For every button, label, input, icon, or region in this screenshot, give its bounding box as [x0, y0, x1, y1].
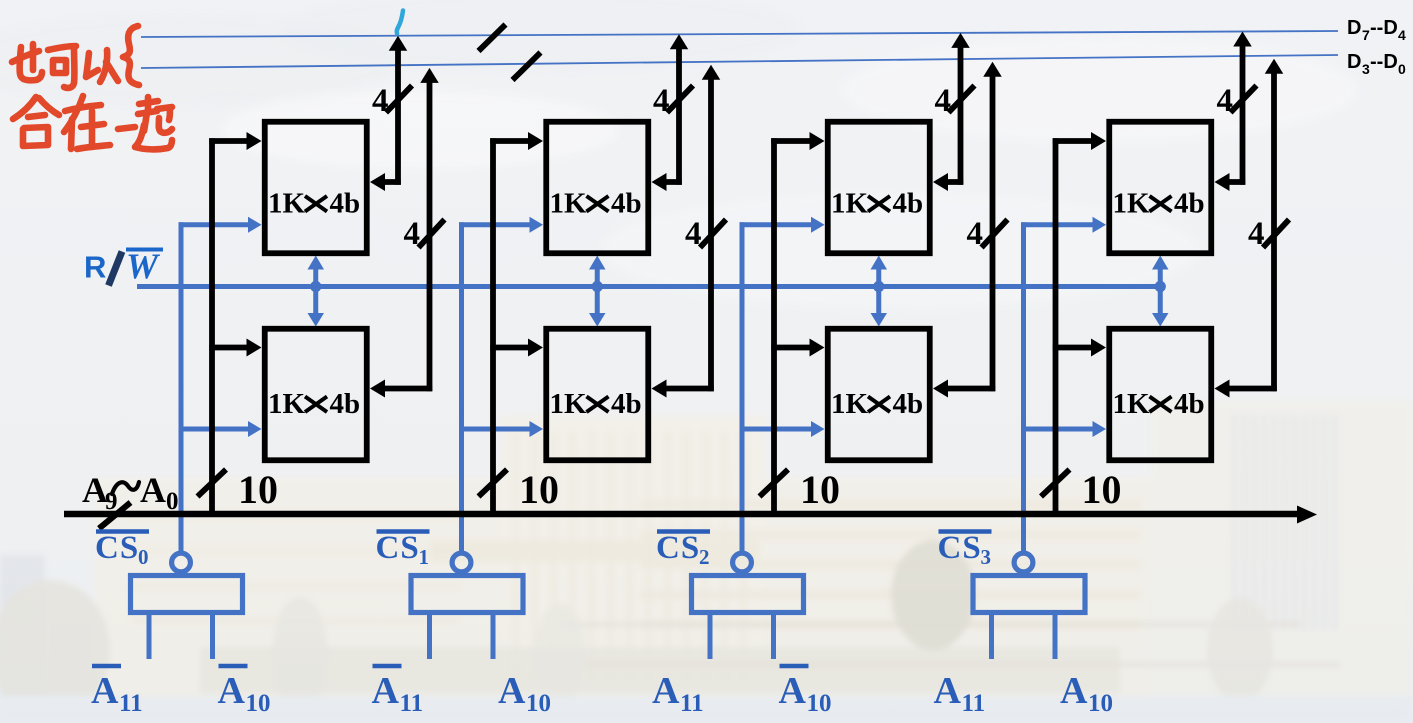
wire: decoder input A11 leg column 2: [427, 611, 432, 659]
wire: data bus connection lower chip to D3--D0, column 4: [1227, 386, 1277, 392]
RAM chip U3 1K x 4b (upper, column 2): [546, 122, 648, 254]
svg-text:10: 10: [1082, 467, 1122, 512]
svg-text:A: A: [218, 670, 246, 712]
wire: CS3 branch into lower chip: [1021, 427, 1095, 432]
decoder gate (AND) for CS2: [692, 576, 804, 613]
svg-text:A: A: [372, 670, 400, 712]
RAM chip U1 1K x 4b (upper, column 1): [265, 122, 367, 254]
svg-text:11: 11: [119, 690, 143, 717]
svg-text:10: 10: [519, 467, 559, 512]
svg-text:1K: 1K: [268, 388, 306, 420]
inverter bubble on decoder output 1: [452, 553, 471, 572]
RAM chip U5 1K x 4b (upper, column 3): [828, 122, 930, 254]
wire: address branch into upper chip column 4: [1053, 138, 1094, 144]
svg-text:4: 4: [653, 83, 670, 119]
svg-text:4b: 4b: [330, 388, 361, 420]
wire: address feed vertical column 4: [1053, 138, 1059, 514]
svg-text:4: 4: [1398, 27, 1406, 43]
wire: address branch into upper chip column 2: [490, 138, 530, 144]
svg-text:4b: 4b: [611, 188, 642, 220]
wire: R/W control line: [137, 284, 1160, 289]
inverter bubble on decoder output 2: [733, 553, 752, 572]
svg-text:10: 10: [807, 690, 832, 717]
svg-text:10: 10: [1088, 690, 1113, 717]
svg-text:D: D: [1347, 51, 1361, 73]
bus-width slash on D3--D0 line: [513, 53, 541, 81]
RAM chip U8 1K x 4b (lower, column 4): [1109, 329, 1211, 461]
RAM chip U4 1K x 4b (lower, column 2): [546, 329, 648, 461]
svg-text:4: 4: [372, 83, 389, 119]
handwritten annotation: - (dash): [118, 127, 135, 129]
wire: data bus connection upper chip to D7--D4, column 3: [946, 179, 964, 185]
svg-text:CS: CS: [938, 530, 982, 566]
svg-text:A: A: [1060, 670, 1088, 712]
svg-text:4b: 4b: [893, 188, 924, 220]
svg-text:3: 3: [981, 545, 992, 569]
svg-text:CS: CS: [656, 530, 700, 566]
svg-text:4b: 4b: [1174, 188, 1205, 220]
svg-text:4: 4: [935, 83, 952, 119]
wire: address branch into lower chip column 4: [1053, 345, 1094, 351]
handwritten annotation: 在: [65, 105, 101, 111]
inverter bubble on decoder output 3: [1014, 553, 1033, 572]
wire: data bus connection upper chip to D7--D4, column 1: [383, 179, 401, 185]
svg-text:4: 4: [685, 216, 702, 252]
svg-text:1K: 1K: [831, 188, 869, 220]
svg-text:A: A: [652, 670, 680, 712]
wire: R/W double-headed arrow column 3: [876, 268, 881, 315]
bus-width slash (10) on address feed, column 2: [479, 470, 508, 497]
bus-width slash on D7--D4 line: [479, 25, 506, 52]
wire: data bus connection upper chip to D7--D4, column 2: [664, 179, 682, 185]
bus-width slash (10) on address feed, column 4: [1041, 470, 1070, 497]
wire: data bus connection upper chip to D7--D4, column 4: [1227, 179, 1245, 185]
bus-width slash (4) upper, column 1: [386, 86, 412, 113]
wire: chip-select net CS3 vertical from decoder: [1021, 222, 1026, 551]
svg-text:3: 3: [1362, 61, 1370, 77]
bus-width slash (10) on address feed, column 3: [760, 470, 789, 497]
wire: decoder input A10 leg column 3: [771, 611, 776, 659]
junction dot on R/W line column 4: [1155, 281, 1166, 292]
junction dot on R/W line column 2: [592, 281, 603, 292]
wire: address feed vertical column 1: [209, 138, 215, 514]
bus-width slash (4) upper, column 2: [667, 86, 693, 113]
RAM chip U7 1K x 4b (upper, column 4): [1109, 122, 1211, 254]
svg-text:10: 10: [526, 690, 551, 717]
svg-text:1K: 1K: [831, 388, 869, 420]
wire: chip-select net CS1 vertical from decoder: [459, 222, 464, 551]
svg-text:0: 0: [1398, 61, 1406, 77]
svg-text:10: 10: [800, 467, 840, 512]
wire: decoder input A10 leg column 4: [1053, 611, 1058, 659]
wire: CS1 branch into lower chip: [459, 427, 532, 432]
svg-text:CS: CS: [95, 530, 139, 566]
inverter bubble on decoder output 0: [172, 553, 191, 572]
svg-text:4b: 4b: [1174, 388, 1205, 420]
handwritten annotation: 可: [48, 46, 76, 50]
handwritten annotation: 合: [13, 97, 36, 119]
wire: CS2 branch into lower chip: [740, 427, 814, 432]
bus-width slash (4) lower, column 3: [982, 220, 1008, 248]
wire: decoder input A11 leg column 3: [708, 611, 713, 659]
wire: CS3 branch into upper chip: [1021, 222, 1095, 227]
svg-text:1K: 1K: [550, 188, 588, 220]
svg-text:W: W: [126, 246, 161, 286]
wire: address branch into upper chip column 1: [209, 138, 249, 144]
wire: R/W double-headed arrow column 1: [313, 268, 318, 315]
svg-text:D: D: [1347, 17, 1361, 39]
svg-text:11: 11: [680, 690, 704, 717]
svg-text:4b: 4b: [611, 388, 642, 420]
svg-text:0: 0: [138, 545, 149, 569]
svg-text:4b: 4b: [893, 388, 924, 420]
wire: decoder input A11 leg column 4: [989, 611, 994, 659]
wire: decoder input A10 leg column 2: [491, 611, 496, 659]
wire: data bus connection lower chip to D3--D0, column 1: [383, 386, 433, 392]
svg-text:4: 4: [404, 216, 421, 252]
wire: R/W double-headed arrow column 4: [1158, 268, 1163, 315]
svg-text:1K: 1K: [268, 188, 306, 220]
decoder gate (AND) for CS1: [411, 576, 523, 613]
wire: data bus connection lower chip to D3--D0, column 3: [946, 386, 996, 392]
wire: decoder input A10 leg column 1: [210, 611, 215, 659]
handwritten annotation: 以: [86, 53, 98, 77]
wire: chip-select net CS0 vertical from decoder: [179, 222, 184, 551]
svg-text:A: A: [779, 670, 807, 712]
wire: address feed vertical column 2: [490, 138, 496, 514]
svg-text:--D: --D: [1370, 51, 1398, 73]
svg-text:A: A: [140, 470, 166, 510]
svg-text:4: 4: [1248, 216, 1265, 252]
RAM chip U6 1K x 4b (lower, column 3): [828, 329, 930, 461]
wire: address feed vertical column 3: [771, 138, 777, 514]
wire: R/W double-headed arrow column 2: [595, 268, 600, 315]
junction dot on R/W line column 1: [310, 281, 321, 292]
bus-width slash (4) upper, column 3: [949, 86, 975, 113]
svg-text:1: 1: [419, 545, 430, 569]
svg-text:A: A: [91, 670, 119, 712]
light blue pen mark: [397, 11, 403, 34]
svg-text:11: 11: [400, 690, 424, 717]
wire: CS0 branch into lower chip: [179, 427, 251, 432]
wire: data bus connection lower chip to D3--D0, column 2: [664, 386, 714, 392]
bus-width slash (10) on address feed, column 1: [198, 470, 227, 497]
wire: CS0 branch into upper chip: [179, 222, 251, 227]
wire: data bus line D7--D4: [141, 31, 1338, 37]
svg-text:CS: CS: [376, 530, 420, 566]
wire: CS2 branch into upper chip: [740, 222, 814, 227]
wire: data bus line D3--D0: [141, 55, 1338, 68]
wire: CS1 branch into upper chip: [459, 222, 532, 227]
svg-text:4b: 4b: [330, 188, 361, 220]
wire: decoder input A11 leg column 1: [147, 611, 152, 659]
svg-text:1K: 1K: [1113, 388, 1151, 420]
wire: address branch into upper chip column 3: [771, 138, 812, 144]
bus-width slash (4) upper, column 4: [1231, 86, 1257, 113]
handwritten annotation: 也: [12, 51, 39, 62]
svg-text:10: 10: [238, 467, 278, 512]
svg-text:A: A: [498, 670, 526, 712]
handwritten annotation: 起: [145, 97, 152, 110]
wire: chip-select net CS2 vertical from decoder: [740, 222, 745, 551]
bus-width slash (4) lower, column 2: [700, 220, 726, 248]
svg-text:7: 7: [1362, 27, 1370, 43]
svg-text:4: 4: [1217, 83, 1234, 119]
svg-text:11: 11: [962, 690, 986, 717]
svg-text:R: R: [84, 250, 106, 285]
decoder gate (AND) for CS0: [131, 576, 243, 613]
svg-text:--D: --D: [1370, 17, 1398, 39]
wire: address branch into lower chip column 1: [209, 345, 249, 351]
svg-text:0: 0: [166, 488, 179, 515]
svg-text:10: 10: [246, 690, 271, 717]
decoder gate (AND) for CS3: [973, 576, 1085, 613]
svg-text:4: 4: [967, 216, 984, 252]
wire: address branch into lower chip column 2: [490, 345, 530, 351]
RAM chip U2 1K x 4b (lower, column 1): [265, 329, 367, 461]
junction dot on R/W line column 3: [873, 281, 884, 292]
bus-width slash (4) lower, column 4: [1263, 220, 1289, 248]
svg-text:1K: 1K: [550, 388, 588, 420]
svg-text:2: 2: [699, 545, 710, 569]
svg-text:A: A: [934, 670, 962, 712]
handwritten curly brace: [123, 26, 139, 85]
wire: address branch into lower chip column 3: [771, 345, 812, 351]
bus-width slash on address bus at A9~A0 label: [99, 503, 131, 529]
bus-width slash (4) lower, column 1: [419, 220, 445, 248]
wire: address bus A9~A0: [64, 511, 1298, 518]
svg-text:1K: 1K: [1113, 188, 1151, 220]
